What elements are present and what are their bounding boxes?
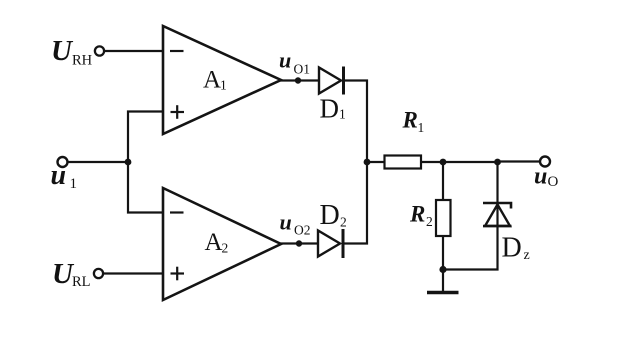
wire D2 to junction node — [342, 161, 368, 244]
svg-text:u: u — [51, 160, 67, 191]
wire A1 output to D1 — [280, 79, 319, 81]
op-amp A2 plus marker — [171, 272, 185, 274]
op-amp A2 — [163, 188, 281, 300]
svg-text:R: R — [402, 108, 418, 133]
resistor R2 — [436, 200, 451, 236]
svg-text:2: 2 — [222, 241, 229, 256]
wire R2 bottom lead — [442, 236, 444, 271]
terminal u_O — [540, 157, 550, 167]
svg-text:2: 2 — [340, 215, 347, 230]
wire node Dz to terminal u_O — [498, 160, 541, 162]
op-amp A1 — [163, 26, 281, 134]
wire node R2 to node Dz — [443, 161, 498, 163]
wire u_1 to node — [68, 161, 130, 163]
svg-text:D: D — [502, 233, 522, 264]
svg-text:RH: RH — [72, 53, 93, 69]
svg-text:D: D — [320, 94, 340, 124]
svg-text:2: 2 — [426, 214, 433, 229]
terminal U_RH — [95, 46, 104, 55]
wire junction to R1 — [367, 161, 385, 163]
svg-text:1: 1 — [418, 120, 425, 135]
svg-text:A: A — [203, 67, 221, 94]
wire R2 top lead — [442, 162, 444, 201]
node diode junction — [364, 159, 371, 166]
wire Dz through lead — [443, 162, 498, 270]
svg-text:u: u — [279, 48, 291, 73]
node u_O1 — [295, 77, 301, 83]
svg-text:1: 1 — [220, 78, 227, 93]
node ground junction — [439, 266, 446, 273]
terminal U_RL — [94, 269, 103, 278]
diode D1 — [319, 68, 341, 94]
wire R1 to node R2 — [421, 161, 444, 163]
svg-text:u: u — [534, 164, 547, 190]
terminal u_1 — [58, 157, 68, 167]
svg-text:RL: RL — [72, 274, 91, 290]
op-amp A1 minus marker — [170, 50, 184, 52]
ground stem — [442, 270, 444, 292]
ground bar — [427, 291, 459, 295]
wire U_RL to A2 plus input — [104, 272, 165, 274]
zener diode Dz cathode bar — [483, 203, 511, 209]
svg-text:R: R — [409, 202, 425, 227]
node u_O2 — [296, 240, 302, 246]
svg-text:U: U — [51, 35, 74, 67]
diode D2 — [318, 231, 340, 257]
svg-text:O2: O2 — [294, 223, 311, 238]
svg-text:O: O — [548, 174, 559, 190]
svg-text:A: A — [205, 229, 223, 256]
node u_1 junction — [125, 159, 132, 166]
zener diode Dz triangle — [485, 205, 510, 227]
op-amp A1 plus marker — [171, 111, 185, 113]
node Dz top — [494, 159, 501, 166]
resistor R1 — [385, 156, 422, 169]
svg-text:u: u — [280, 210, 292, 235]
wire U_RH to A1 inverting input — [105, 50, 165, 52]
svg-text:1: 1 — [339, 107, 346, 122]
wire A2 output to D2 — [280, 242, 318, 244]
op-amp A2 minus marker — [170, 211, 184, 213]
svg-text:1: 1 — [70, 176, 78, 192]
wire node to A1 plus input — [128, 112, 164, 164]
svg-text:D: D — [320, 200, 340, 231]
wire D1 to junction node — [342, 81, 367, 164]
wire node to A2 minus input — [128, 161, 164, 213]
svg-text:z: z — [524, 248, 530, 263]
node R2 top — [440, 159, 447, 166]
svg-text:O1: O1 — [294, 62, 311, 77]
